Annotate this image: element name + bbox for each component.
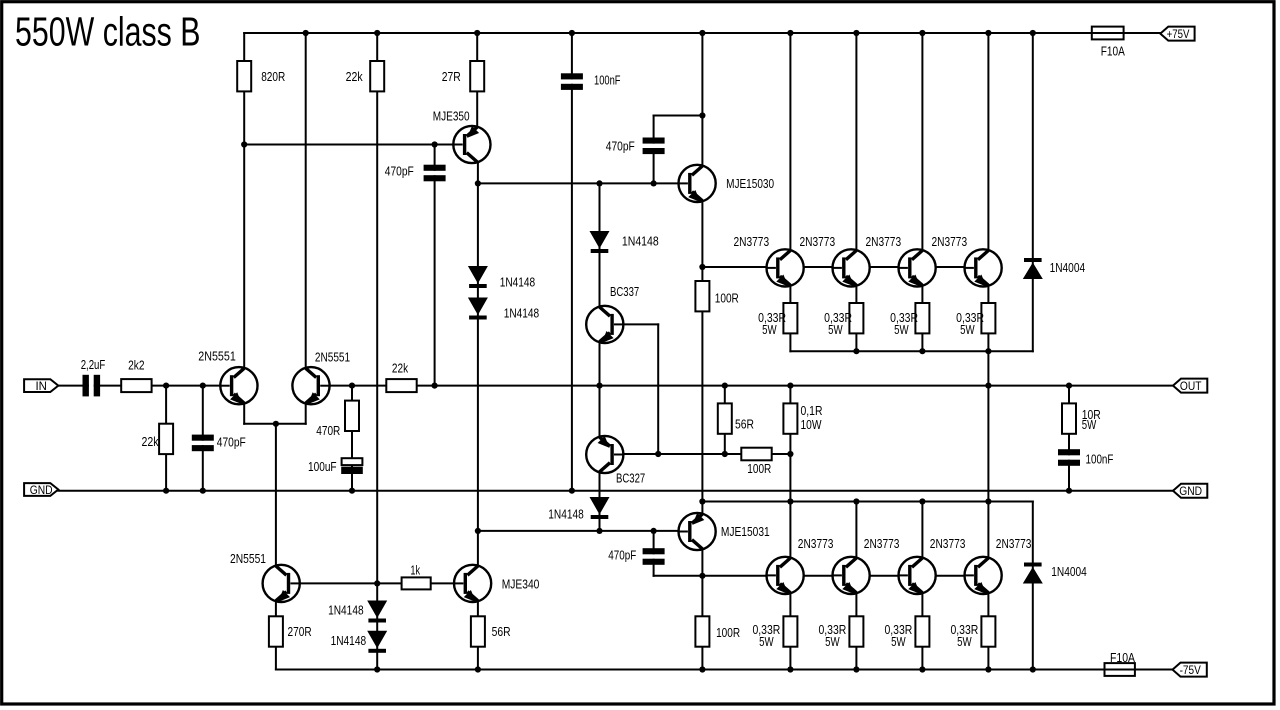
wire lower collector bus (702, 501, 1032, 503)
wire 470pF compensation column (434, 145, 436, 386)
diode 1N4148 (BC337 collector) (590, 231, 610, 249)
svg-text:100nF: 100nF (594, 73, 621, 88)
resistor 0,33R 5W lower #2 (849, 616, 863, 646)
port -75V (1173, 663, 1207, 677)
capacitor 470pF (input) (198, 441, 208, 445)
transistor MJE15030 (679, 165, 716, 202)
svg-text:5W: 5W (960, 322, 975, 337)
resistor 470R (345, 401, 359, 431)
svg-text:BC337: BC337 (610, 284, 639, 299)
resistor 22k (input) (159, 424, 173, 454)
svg-text:5W: 5W (1082, 417, 1097, 432)
wire 2N3773 #2 collector (855, 33, 857, 249)
capacitor 470pF (MJE15030) (649, 144, 659, 148)
resistor 22k (from +75V) (370, 61, 384, 91)
capacitor 470pF (compensation) (430, 171, 440, 175)
diode 1N4004 (lower) (1024, 563, 1042, 567)
svg-text:1N4148: 1N4148 (622, 234, 659, 249)
wire 1N4004 lower column (1032, 502, 1034, 670)
wire 27R to MJE350 emitter (476, 33, 478, 126)
wire 2N3773 #4 collector (987, 33, 989, 249)
wire Q3 emitter / 270R (275, 602, 277, 670)
junction dot 470pF top (699, 112, 705, 118)
svg-text:100R: 100R (747, 461, 771, 476)
svg-text:470pF: 470pF (608, 548, 636, 563)
resistor 820R (237, 61, 251, 91)
diode 1N4148 (bias upper) (367, 601, 387, 619)
diode 1N4148 (VAS lower) (468, 298, 488, 316)
wire MJE15031 collector / 100R lower column (701, 550, 703, 669)
transistor MJE340 (454, 565, 491, 602)
resistor 0,33R 5W upper #1 (783, 303, 797, 333)
junction dots on +75V rail (303, 30, 309, 36)
wire 22k / bias diode chain column (376, 33, 378, 670)
wire Q3 base / 1k / MJE340 base line (300, 582, 454, 584)
transistor 2N5551 Q1 (220, 367, 257, 404)
transistor 2N3773 lower #3 (899, 557, 936, 594)
junction dots lower collector bus (699, 498, 705, 504)
wire MJE350 collector / VAS diodes / MJE340 collector column (477, 163, 479, 565)
resistor 56R (MJE340 emitter) (471, 616, 485, 646)
svg-text:MJE15030: MJE15030 (726, 176, 774, 191)
port GND (left) (24, 483, 58, 496)
svg-text:470R: 470R (316, 423, 340, 438)
resistor 1k (402, 577, 431, 589)
wire upper emitter rail (790, 350, 1032, 352)
junction dot upper base bus (699, 264, 705, 270)
wire BC337 base (623, 323, 658, 325)
svg-text:F10A: F10A (1101, 43, 1125, 58)
capacitor 470pF (MJE15031) (649, 554, 659, 558)
fuse F10A (-75V) (1105, 663, 1135, 676)
svg-text:1N4004: 1N4004 (1051, 564, 1087, 579)
transistor 2N3773 lower #4 (965, 557, 1002, 594)
transistor BC327 (586, 436, 623, 473)
resistor 0,33R 5W upper #4 (981, 303, 995, 333)
wire input line (58, 385, 220, 387)
wire lower output base bus (654, 575, 974, 577)
wire 100nF decoupling column (571, 33, 573, 491)
wire 2N3773 #3 emitter to 0,33R (921, 286, 923, 351)
wire MJE15030 emitter / 100R / MJE15031 emitter column (701, 202, 703, 513)
wire lower 2N3773 #3 emitter / 0,33R (921, 594, 923, 670)
wire 1N4004 upper column (1032, 33, 1034, 351)
port GND (right) (1173, 484, 1207, 498)
resistor 100R (drivers) (741, 448, 771, 461)
svg-text:2N3773: 2N3773 (864, 536, 900, 551)
svg-text:OUT: OUT (1180, 379, 1202, 393)
resistor 270R (269, 616, 283, 646)
capacitor 100nF (output) (1064, 455, 1074, 459)
wire BC327 base / 100R line (623, 453, 790, 455)
wire 820R / Q1 collector column (243, 33, 245, 367)
diode 1N4148 (bias lower) (367, 631, 387, 649)
svg-text:5W: 5W (759, 634, 774, 649)
port +75V (1160, 27, 1194, 41)
svg-text:F10A: F10A (1110, 650, 1135, 665)
wire tail to Q3 collector (275, 424, 277, 565)
transistor 2N3773 upper #4 (965, 249, 1002, 286)
wire emitter join (244, 423, 306, 425)
wire OUT rail (330, 385, 1173, 387)
wire 470pF input to GND (202, 386, 204, 491)
svg-text:1N4004: 1N4004 (1050, 260, 1086, 275)
wire -75V bottom rail (276, 669, 1105, 671)
capacitor 100uF (342, 458, 363, 465)
wire 470pF vertical (lower) (653, 531, 655, 576)
wire emitter rail to OUT / lower 2N3773 #4 collector (987, 351, 989, 557)
svg-text:2N3773: 2N3773 (932, 234, 968, 249)
svg-text:820R: 820R (261, 69, 285, 84)
wire 56R column (724, 386, 726, 454)
junction dots OUT rail (349, 383, 355, 389)
wire GND rail (58, 490, 1173, 492)
wire MJE15030 collector to +75V rail (701, 33, 703, 165)
svg-text:2,2uF: 2,2uF (81, 357, 106, 372)
wire lower 2N3773 #4 emitter / 0,33R (987, 594, 989, 670)
svg-text:100R: 100R (716, 625, 740, 640)
svg-text:2k2: 2k2 (128, 358, 144, 373)
svg-text:56R: 56R (492, 624, 511, 639)
resistor 0,33R 5W lower #4 (981, 616, 995, 646)
junction dots -75V rail (374, 666, 380, 672)
wire lower 2N3773 #3 collector (921, 502, 923, 557)
svg-text:GND: GND (30, 483, 53, 497)
resistor 0,33R 5W lower #3 (915, 616, 929, 646)
transistor 2N5551 Q2 (292, 367, 329, 404)
svg-text:2N5551: 2N5551 (315, 350, 350, 365)
svg-text:IN: IN (36, 379, 47, 393)
junction dots MJE15030 base line (475, 180, 481, 186)
wire +75V top rail (244, 32, 1160, 34)
svg-text:2N3773: 2N3773 (734, 234, 770, 249)
svg-text:+75V: +75V (1167, 27, 1190, 41)
svg-text:470pF: 470pF (385, 164, 414, 179)
junction dots MJE15031 base line (475, 528, 481, 534)
resistor 100R (lower driver) (695, 616, 709, 646)
wire 2N3773 #1 collector (789, 33, 791, 249)
svg-text:5W: 5W (825, 634, 840, 649)
wire MJE15031 base line (478, 530, 679, 532)
junction dots node A line (241, 141, 247, 147)
resistor 0,33R 5W upper #3 (915, 303, 929, 333)
fuse F10A (+75V) (1092, 27, 1124, 40)
svg-text:GND: GND (1179, 484, 1202, 498)
diode 1N4148 (BC327 collector) (590, 497, 610, 515)
wire Q1 emitter (243, 404, 245, 424)
svg-text:0,1R: 0,1R (801, 403, 823, 418)
transistor MJE350 (453, 126, 490, 163)
svg-text:270R: 270R (288, 624, 312, 639)
svg-text:MJE350: MJE350 (433, 109, 470, 124)
svg-text:1N4148: 1N4148 (500, 274, 536, 289)
wire 2N3773 #2 emitter to 0,33R (855, 286, 857, 351)
port IN (24, 379, 58, 392)
wire lower 2N3773 #2 collector (855, 502, 857, 557)
junction dot diff pair tail (273, 421, 279, 427)
junction dots input line (163, 383, 169, 389)
wire BC337 emitter / BC327 emitter to OUT rail (599, 343, 601, 436)
capacitor 2,2uF input (89, 381, 94, 391)
svg-text:1k: 1k (410, 563, 420, 578)
resistor 2k2 (121, 379, 151, 392)
resistor 56R (middle) (718, 403, 732, 433)
svg-text:10W: 10W (801, 417, 823, 432)
svg-text:56R: 56R (735, 417, 754, 432)
diode 1N4148 (VAS upper) (468, 266, 488, 284)
wire 470R / 100uF column (351, 386, 353, 491)
resistor 0,1R 10W (783, 403, 797, 433)
wire node A (Q1 collector to MJE350 base) (244, 144, 453, 146)
wire lower 2N3773 #1 emitter / 0,33R (789, 594, 791, 670)
transistor 2N5551 Q3 (263, 565, 300, 602)
resistor 27R (470, 61, 484, 91)
wire 2N3773 #1 emitter to 0,33R (789, 286, 791, 351)
junction dots driver base line (655, 451, 661, 457)
svg-text:1N4148: 1N4148 (548, 507, 584, 522)
svg-text:2N5551: 2N5551 (198, 349, 236, 364)
wire BC337 collector diode branch (599, 183, 601, 305)
transistor 2N3773 upper #1 (767, 249, 804, 286)
wire 470pF vertical (upper) (653, 116, 655, 184)
svg-text:1N4148: 1N4148 (331, 633, 367, 648)
svg-text:470pF: 470pF (217, 435, 246, 450)
capacitor 100nF (supply) (567, 79, 577, 83)
wire MJE15030 base line (478, 182, 679, 184)
wire MJE340 emitter / 56R (477, 602, 479, 670)
svg-text:2N3773: 2N3773 (866, 234, 902, 249)
svg-text:100nF: 100nF (1086, 451, 1114, 466)
svg-text:22k: 22k (392, 360, 409, 375)
svg-text:550W class B: 550W class B (15, 9, 201, 55)
svg-text:2N5551: 2N5551 (230, 551, 266, 566)
transistor 2N3773 lower #2 (833, 557, 870, 594)
transistor 2N3773 upper #2 (833, 249, 870, 286)
transistor BC337 (586, 306, 623, 343)
wire upper output base bus (702, 266, 973, 268)
wire 0,1R column to lower 2N3773 #1 collector (789, 386, 791, 557)
svg-text:5W: 5W (828, 322, 843, 337)
svg-text:MJE15031: MJE15031 (721, 524, 770, 539)
resistor 0,33R 5W lower #1 (783, 616, 797, 646)
wire 2N3773 #3 collector (921, 33, 923, 249)
wire -75V rail to flag (1135, 669, 1173, 671)
resistor 100R (upper driver) (695, 281, 709, 311)
diode 1N4004 (upper) (1024, 258, 1042, 262)
svg-text:5W: 5W (957, 634, 972, 649)
svg-text:22k: 22k (142, 434, 159, 449)
junction dots GND rail (163, 488, 169, 494)
junction dot Q3 base / bias chain (374, 580, 380, 586)
transistor MJE15031 (679, 513, 716, 550)
transistor 2N3773 upper #3 (899, 249, 936, 286)
junction dot lower base bus (699, 573, 705, 579)
wire Q2 emitter (305, 404, 307, 424)
svg-text:BC327: BC327 (616, 471, 645, 486)
wire 10R / 100nF column (1068, 386, 1070, 491)
svg-text:5W: 5W (762, 322, 777, 337)
port OUT (1173, 379, 1207, 393)
resistor 0,33R 5W upper #2 (849, 303, 863, 333)
svg-text:-75V: -75V (1180, 663, 1201, 677)
svg-text:5W: 5W (891, 634, 906, 649)
svg-text:5W: 5W (894, 322, 909, 337)
svg-text:100R: 100R (715, 291, 739, 306)
svg-text:27R: 27R (442, 69, 461, 84)
svg-text:2N3773: 2N3773 (798, 536, 834, 551)
wire lower 2N3773 #2 emitter / 0,33R (855, 594, 857, 670)
wire 2N3773 #4 emitter to 0,33R (987, 286, 989, 351)
svg-text:1N4148: 1N4148 (504, 305, 540, 320)
resistor 22k (feedback) (386, 379, 416, 392)
svg-text:MJE340: MJE340 (502, 577, 540, 592)
wire Q2 collector to +75V rail (305, 33, 307, 367)
wire BC337 base to BC327 base vertical (657, 324, 659, 454)
wire 22k input to GND (165, 386, 167, 491)
svg-text:1N4148: 1N4148 (328, 603, 364, 618)
wire BC327 collector diode branch (599, 473, 601, 531)
svg-text:2N3773: 2N3773 (930, 536, 966, 551)
svg-text:100uF: 100uF (308, 459, 337, 474)
wire 470pF top horizontal (654, 115, 703, 117)
resistor 10R 5W (1062, 403, 1076, 433)
svg-text:2N3773: 2N3773 (996, 536, 1032, 551)
junction dots upper emitter rail (853, 348, 859, 354)
svg-text:22k: 22k (346, 69, 363, 84)
transistor 2N3773 lower #1 (767, 557, 804, 594)
svg-text:470pF: 470pF (606, 139, 635, 154)
svg-text:2N3773: 2N3773 (800, 234, 836, 249)
